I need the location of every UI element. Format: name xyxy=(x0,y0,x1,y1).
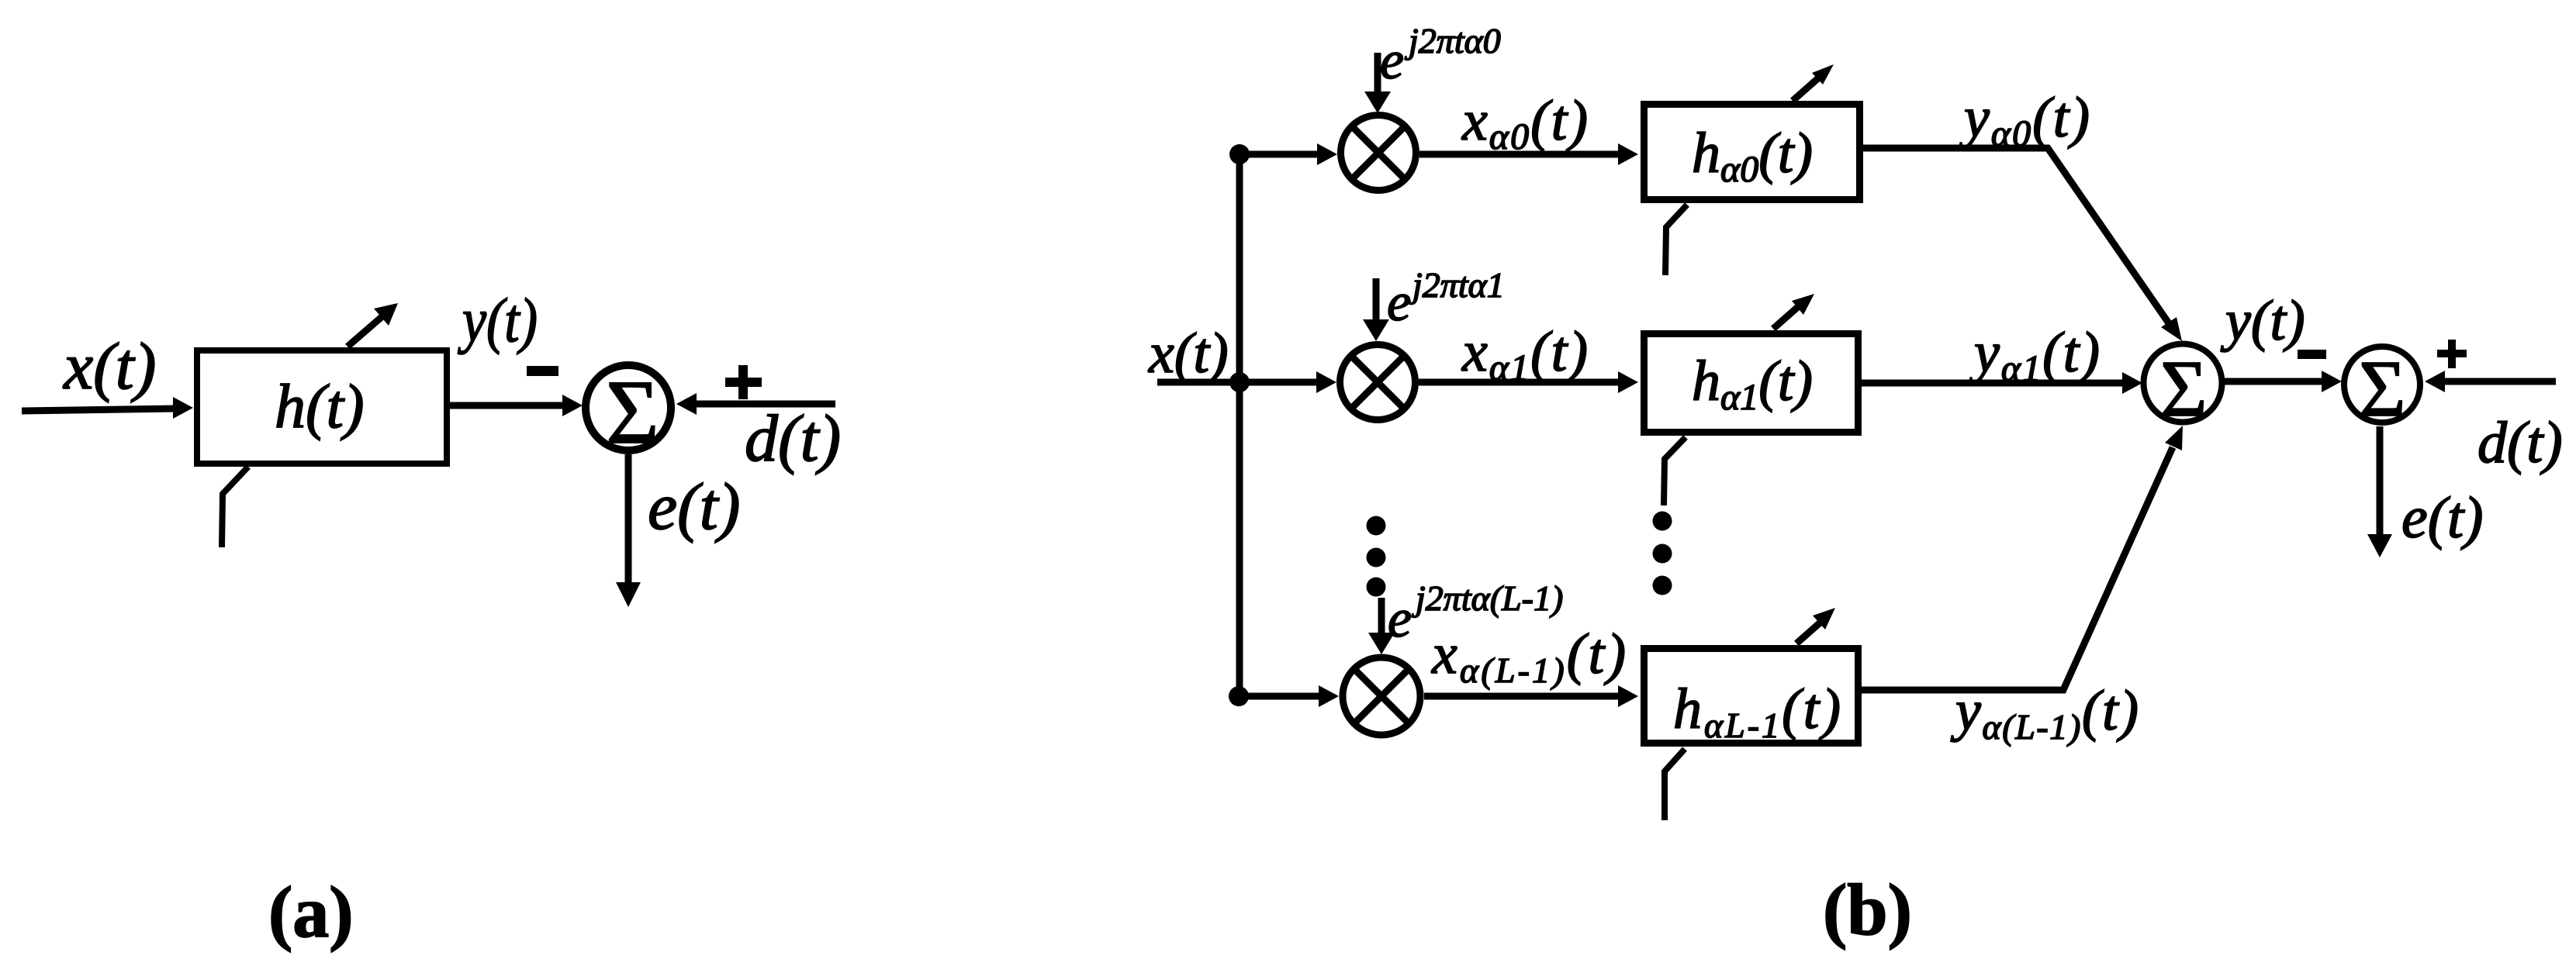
plus sign at summer (a) xyxy=(725,378,762,387)
wire d(t) into summer (a) xyxy=(695,401,835,408)
wire input x(t) into h(t) (a) xyxy=(22,409,175,411)
arrowhead from d(t) into S2 (b) xyxy=(2425,371,2445,392)
wire bus to multiplier M1 (b) xyxy=(1240,151,1319,158)
carrier arrow into M3 (b) xyxy=(1378,598,1385,636)
adaptation arrow on h_alpha0 (b) xyxy=(1793,78,1819,101)
carrier arrow into M2 (b) xyxy=(1373,278,1380,323)
adaptation arrow on h_alpha1 (b) xyxy=(1773,305,1800,329)
svg-text:Σ: Σ xyxy=(2160,344,2208,433)
svg-text:e(t): e(t) xyxy=(2401,485,2483,550)
arrowhead into summer S1 bottom (b) xyxy=(2165,426,2183,450)
wire bus to multiplier M3 (b) xyxy=(1240,693,1320,700)
svg-text:e: e xyxy=(1387,273,1411,333)
junction dot row 3 (b) xyxy=(1229,686,1249,706)
wire M2 to filter block h_a1 (b) xyxy=(1419,379,1620,386)
multiplier M2 circle (b) xyxy=(1340,345,1416,420)
arrowhead into h(t) box (a) xyxy=(173,397,193,419)
arrowhead into h_aL-1 (b) xyxy=(1618,685,1638,707)
wire h_alpha1 to summer S1 (b) xyxy=(1862,380,2124,387)
plus sign at summer S2 (b) xyxy=(2437,350,2467,357)
wire S1 to S2 (b) xyxy=(2223,378,2322,385)
adaptation hook below h_alpha1 (b) xyxy=(1664,437,1686,505)
junction dot row 1 (b) xyxy=(1229,144,1250,164)
multiplier M2 cross xyxy=(1351,356,1404,409)
svg-text:(a): (a) xyxy=(268,872,354,953)
arrowhead into multiplier M1 (b) xyxy=(1317,143,1337,165)
adaptation hook below h_alphaL-1 (b) xyxy=(1665,749,1685,820)
arrowhead into h_a1 (b) xyxy=(1618,371,1638,393)
arrowhead into summer S1 top (b) xyxy=(2161,317,2182,341)
wire h_alpha0 to summer S1 diagonal (b) xyxy=(1863,148,2169,323)
wire h_alphaL-1 to summer S1 diagonal (b) xyxy=(1862,447,2173,690)
wire M1 to filter block h_a0 (b) xyxy=(1419,151,1620,158)
summer S1 sigma circle (b) xyxy=(2144,344,2222,423)
arrowhead e(t) (b) xyxy=(2367,534,2392,557)
filter block h_alpha1 (b) xyxy=(1644,334,1859,433)
multiplier M1 cross xyxy=(1352,126,1405,179)
multiplier M3 cross xyxy=(1354,669,1409,723)
svg-text:d(t): d(t) xyxy=(2477,410,2563,475)
svg-text:x(t): x(t) xyxy=(62,329,156,403)
arrowhead into h_a0 (b) xyxy=(1618,143,1638,165)
arrowhead from d(t) into summer (a) xyxy=(676,393,697,415)
wire h(t) output to summer (a) xyxy=(450,402,565,409)
svg-text:y(t): y(t) xyxy=(2220,289,2305,353)
adaptation arrow on h(t) (a) xyxy=(348,316,382,347)
svg-text:Σ: Σ xyxy=(606,361,659,463)
wire x(t) input (b) xyxy=(1157,379,1319,386)
svg-text:j2πtα0: j2πtα0 xyxy=(1405,21,1501,60)
arrowhead e(t) (a) xyxy=(616,582,641,607)
carrier arrow into M1 (b) xyxy=(1374,53,1381,95)
arrowhead into multiplier M2 (b) xyxy=(1316,371,1336,393)
wire e(t) down from summer S2 (b) xyxy=(2377,426,2384,536)
arrowhead into summer S2 left (b) xyxy=(2322,371,2342,392)
arrowhead into summer S1 left (b) xyxy=(2122,372,2142,394)
summer S2 sigma circle (b) xyxy=(2344,347,2420,423)
filter block h(t) (a) xyxy=(197,350,447,464)
svg-text:Σ: Σ xyxy=(2359,344,2406,433)
svg-text:(b): (b) xyxy=(1823,870,1912,950)
svg-text:y(t): y(t) xyxy=(458,287,538,355)
ellipsis dots column 2 (b) xyxy=(1653,512,1672,531)
arrowhead into summer (a) xyxy=(562,395,583,416)
svg-text:h(t): h(t) xyxy=(275,373,365,441)
adaptation hook below h_alpha0 (b) xyxy=(1665,205,1687,275)
ellipsis dots column 1 (b) xyxy=(1367,516,1386,536)
wire M3 to filter block h_aL-1 (b) xyxy=(1424,693,1618,700)
minus sign at summer (a) xyxy=(527,366,558,376)
junction dot row 2 (b) xyxy=(1229,372,1250,392)
svg-text:e: e xyxy=(1388,589,1412,649)
svg-text:e: e xyxy=(1380,31,1404,91)
arrowhead into multiplier M3 (b) xyxy=(1319,685,1339,707)
filter block h_alphaL-1 (b) xyxy=(1644,649,1859,743)
adaptation hook below h(t) (a) xyxy=(222,467,248,547)
svg-text:j2πtα1: j2πtα1 xyxy=(1409,265,1505,305)
multiplier M3 circle (b) xyxy=(1343,657,1420,735)
svg-text:x(t): x(t) xyxy=(1148,322,1229,385)
adaptation arrow on h_alphaL-1 (b) xyxy=(1796,620,1823,643)
wire d(t) into summer S2 (b) xyxy=(2443,378,2556,385)
svg-text:e(t): e(t) xyxy=(648,469,740,543)
bus wire vertical (b) xyxy=(1236,154,1243,696)
summer U1 sigma circle (a) xyxy=(586,365,671,450)
multiplier M1 circle (b) xyxy=(1341,116,1416,191)
minus sign at summer S2 (b) xyxy=(2298,350,2326,359)
svg-text:d(t): d(t) xyxy=(745,401,841,475)
wire e(t) output down from summer (a) xyxy=(625,454,632,585)
filter block h_alpha0 (b) xyxy=(1644,105,1860,200)
svg-text:j2πtα(L-1): j2πtα(L-1) xyxy=(1412,578,1563,618)
